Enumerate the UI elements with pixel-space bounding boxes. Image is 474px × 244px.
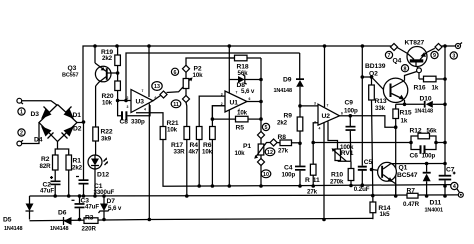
svg-text:U1: U1 — [230, 100, 239, 107]
wire U2 pin3 tap — [300, 105, 318, 107]
svg-text:BD139: BD139 — [365, 63, 386, 70]
svg-text:13: 13 — [154, 84, 160, 90]
wire U1 V- to line A — [228, 110, 230, 186]
svg-text:47uF: 47uF — [85, 204, 99, 211]
resistor R15 — [393, 104, 412, 124]
svg-text:56k: 56k — [427, 128, 438, 135]
transistor Q2 — [365, 63, 408, 103]
diode D5 — [3, 196, 34, 232]
wire P2 top to R18 line — [186, 58, 235, 66]
junction C9 top — [349, 114, 353, 118]
svg-text:3: 3 — [314, 102, 316, 106]
wire Q1 emitter — [392, 181, 396, 196]
junction base — [116, 71, 120, 75]
junction bridge plus — [82, 120, 86, 124]
svg-text:Q3: Q3 — [68, 65, 77, 72]
junction rail U2 supply — [323, 44, 327, 48]
junction collector output column — [443, 162, 447, 166]
junction rail Q3 emitter — [93, 44, 97, 48]
node 8 — [401, 65, 408, 73]
resistor R5 — [212, 110, 261, 132]
resistor R17 — [171, 127, 190, 156]
wire U1 pin2 loop — [212, 106, 225, 119]
svg-text:3k9: 3k9 — [101, 136, 112, 143]
node 9 — [431, 51, 438, 59]
wire R15 to U2 output node — [395, 119, 397, 128]
junction R12 left — [409, 141, 413, 145]
junction output column mid — [443, 141, 447, 145]
svg-text:5: 5 — [265, 125, 268, 131]
svg-text:9: 9 — [433, 53, 436, 59]
svg-text:R12: R12 — [410, 128, 422, 135]
wire Q2 collector to pad8 — [405, 72, 417, 81]
node 12 — [265, 148, 275, 156]
pad terminal small circle — [417, 68, 422, 73]
svg-text:C8: C8 — [120, 119, 129, 126]
wire U1 output — [247, 101, 261, 103]
resistor R20 — [102, 81, 121, 107]
potentiometer P2 — [183, 66, 203, 89]
wire R11 to line A — [312, 175, 314, 186]
wire base feed — [361, 46, 363, 166]
wire sense line A — [163, 127, 451, 187]
svg-text:3: 3 — [127, 105, 129, 109]
svg-text:10k: 10k — [202, 149, 213, 156]
svg-text:10k: 10k — [167, 127, 178, 134]
junction C3 bottom — [78, 218, 82, 222]
wire U2 output — [340, 115, 351, 117]
P1 wiper arrow — [254, 143, 271, 159]
node 10 — [261, 170, 271, 178]
junction rail U1 supply — [228, 44, 232, 48]
resistor R10 — [330, 169, 354, 186]
wire R4 top to U1 pin3 — [199, 96, 225, 126]
junction C5 line A — [361, 183, 365, 187]
svg-text:2k2: 2k2 — [102, 55, 113, 62]
arrowhead P2 wiper — [189, 77, 193, 81]
junction U1 V- line A — [228, 184, 232, 188]
resistor R11 — [305, 164, 320, 195]
svg-text:Q1: Q1 — [399, 165, 408, 172]
wire ground rail B — [30, 195, 459, 196]
terminal input 2 — [17, 140, 23, 146]
wire R6 top to U1 pin2 node — [212, 106, 225, 127]
diode D10 — [415, 95, 446, 114]
resistor R12 — [410, 128, 438, 143]
resistor R13 — [369, 77, 387, 112]
svg-text:3: 3 — [452, 54, 455, 60]
svg-text:BC547: BC547 — [397, 172, 418, 179]
svg-text:7: 7 — [327, 104, 329, 108]
svg-text:C6: C6 — [410, 152, 419, 159]
svg-text:47uF: 47uF — [40, 188, 54, 195]
wire R15 node down to ground — [395, 127, 397, 196]
svg-text:0.47R: 0.47R — [403, 201, 420, 208]
resistor R6 — [202, 127, 215, 156]
svg-text:R8: R8 — [278, 134, 287, 141]
svg-text:82R: 82R — [40, 163, 52, 170]
wire U3 output to pad13 — [153, 96, 161, 101]
wire bridge bottom to R1 R2 — [55, 142, 57, 156]
pad Q4 emitter — [435, 43, 442, 50]
resistor R16 — [414, 76, 446, 91]
svg-text:0.2uF: 0.2uF — [354, 186, 370, 193]
node 7 — [385, 51, 392, 59]
junction R4 line A — [197, 184, 201, 188]
junction rail R19 — [115, 44, 119, 48]
wire D12 to ground — [94, 169, 96, 196]
svg-text:D7: D7 — [107, 198, 116, 205]
transistor Q1 body — [378, 162, 418, 182]
wire U3 pin2 lower to R21 — [136, 113, 163, 127]
zener D8 — [229, 75, 261, 95]
svg-text:R2: R2 — [41, 156, 50, 163]
junction C1 ground — [82, 194, 86, 198]
wire R9 to R8 node — [299, 131, 301, 143]
pad 13 output — [160, 91, 167, 98]
diode D11 — [423, 164, 443, 214]
svg-text:100p: 100p — [344, 108, 358, 115]
capacitor C1 3300uF — [76, 122, 115, 196]
junction D8 R18 — [259, 78, 263, 82]
diode D6 — [50, 209, 72, 232]
wire U3 V- down to line C — [148, 104, 150, 220]
svg-text:6: 6 — [341, 112, 343, 116]
resistor R7 — [403, 187, 420, 208]
svg-text:D4: D4 — [34, 137, 43, 144]
wire R22 to D12 — [95, 141, 97, 155]
wire R10 to line A — [350, 181, 352, 186]
junction rail Q2 base feed — [361, 44, 365, 48]
junction rail U3 supply — [147, 44, 151, 48]
wire U2 V+ column — [324, 46, 326, 107]
resistor R14 — [370, 202, 391, 218]
resistor R9 — [277, 113, 303, 132]
svg-text:Q2: Q2 — [369, 71, 378, 78]
capacitor C4 — [282, 143, 306, 186]
wire ref line from y53 — [126, 53, 300, 101]
junction R8 R9 C4 — [298, 142, 302, 146]
svg-text:1N4148: 1N4148 — [50, 226, 68, 232]
svg-text:R16: R16 — [414, 85, 426, 92]
svg-text:2k2: 2k2 — [277, 120, 288, 127]
junction C7 line A — [443, 184, 447, 188]
wire R6 bottom to line A — [211, 140, 213, 187]
junction R6 line A — [211, 184, 215, 188]
junction D12 ground — [93, 194, 97, 198]
svg-text:8: 8 — [404, 66, 407, 72]
wire Q3 collector to R22 — [95, 86, 97, 127]
capacitor C7 — [439, 167, 456, 197]
svg-text:D5: D5 — [3, 217, 12, 224]
junction R17 ground — [185, 194, 189, 198]
junction R6 R5 node — [211, 117, 215, 121]
wire U3 V+ — [148, 46, 150, 97]
junction ref input — [124, 99, 128, 103]
diode D1 — [64, 107, 75, 120]
junction D10 output column — [443, 103, 447, 107]
wire negative line C — [30, 218, 373, 220]
svg-text:R3: R3 — [85, 215, 94, 222]
wire Q1 collector — [391, 163, 445, 165]
junction U2 V- line C — [322, 218, 326, 222]
wire R1 to ground — [68, 170, 70, 196]
svg-text:1N4148: 1N4148 — [274, 88, 292, 94]
junction D7 bottom — [102, 218, 106, 222]
svg-text:R: R — [305, 177, 310, 184]
svg-text:6: 6 — [174, 70, 177, 76]
svg-text:R5: R5 — [236, 125, 245, 132]
svg-text:D10: D10 — [420, 95, 432, 102]
wire pad13 to P2 wiper arrow — [167, 78, 192, 92]
wire C5 column lower — [361, 170, 363, 185]
svg-text:1k: 1k — [432, 85, 439, 92]
junction R1 ground — [67, 194, 71, 198]
junction feedback mid-line — [311, 141, 315, 145]
junction D11 ground — [425, 194, 429, 198]
wire U3 input node — [118, 100, 131, 102]
node 13 — [152, 82, 162, 91]
svg-text:6: 6 — [249, 97, 251, 101]
resistor R21 — [160, 120, 179, 140]
junction pad10 line A — [259, 184, 263, 188]
diode D9 — [274, 53, 305, 117]
wire mid feedback line — [313, 142, 411, 144]
svg-text:5,6 v: 5,6 v — [241, 88, 255, 95]
wire U2 pin2 to R11 — [313, 123, 318, 164]
svg-text:1k: 1k — [401, 118, 408, 125]
wire terminal1 to bridge top — [22, 101, 58, 106]
pad 10 — [257, 158, 264, 165]
svg-text:R9: R9 — [284, 113, 293, 120]
svg-text:1: 1 — [20, 110, 23, 116]
junction R15 U2 out — [394, 125, 398, 129]
wire bridge right to +rail — [77, 122, 84, 124]
svg-text:100p: 100p — [422, 152, 436, 159]
diode D2 — [62, 126, 75, 139]
svg-text:1N4001: 1N4001 — [425, 208, 443, 214]
wire R12 right to output column — [436, 142, 445, 144]
svg-text:27k: 27k — [278, 148, 289, 155]
wire R17 to ground — [186, 140, 188, 197]
wire terminal2 to bridge left — [22, 123, 39, 144]
wire P1 bottom — [260, 155, 262, 159]
resistor R19 — [101, 46, 120, 66]
junction C4 line A — [298, 184, 302, 188]
wire R14 to line C — [372, 213, 374, 220]
transistor Q3 — [62, 63, 111, 86]
capacitor C5 — [354, 159, 373, 193]
svg-text:R10: R10 — [331, 172, 343, 179]
node 2 — [18, 129, 25, 137]
wire U2 output elbow to R15 node — [350, 116, 395, 127]
junction R5 output node — [259, 117, 263, 121]
junction R10 line A — [349, 184, 353, 188]
svg-text:4: 4 — [144, 108, 146, 112]
zener D7 — [99, 196, 122, 220]
svg-text:C7: C7 — [446, 167, 455, 174]
resistor R18 — [229, 55, 261, 77]
junction U2 pin3 tap — [298, 104, 302, 108]
wire U2 V- to line C — [323, 122, 325, 219]
svg-text:330p: 330p — [131, 119, 145, 126]
wire pad10 to line A — [260, 165, 262, 186]
transistor Q4 KT827 — [393, 39, 435, 66]
wire P2 top — [185, 72, 187, 79]
svg-text:4k7: 4k7 — [189, 149, 200, 156]
junction R16 output column — [443, 77, 447, 81]
svg-text:R1: R1 — [73, 158, 82, 165]
junction U3 input R20 — [116, 99, 120, 103]
LED D12 — [88, 155, 109, 179]
svg-text:U2: U2 — [322, 113, 331, 120]
wire P2 bottom to R17 — [185, 102, 188, 126]
wire Q1 base from divider — [372, 169, 378, 172]
svg-text:C4: C4 — [284, 165, 293, 172]
capacitor C3 — [72, 196, 100, 220]
capacitor C6 — [410, 143, 437, 160]
svg-text:11: 11 — [313, 177, 320, 184]
svg-text:U3: U3 — [136, 99, 145, 106]
wire node4 to terminal — [457, 189, 460, 193]
svg-text:2: 2 — [20, 131, 23, 137]
svg-text:RV1: RV1 — [341, 150, 354, 157]
node 1 — [18, 108, 25, 116]
svg-text:2k2: 2k2 — [72, 165, 83, 172]
svg-text:270k: 270k — [330, 179, 344, 186]
capacitor C9 — [344, 100, 358, 169]
svg-text:1N4148: 1N4148 — [4, 226, 22, 232]
bridge frame — [39, 105, 77, 142]
terminal input 1 — [17, 98, 23, 104]
wire RV1 to U2 offset — [328, 122, 338, 150]
wire U1 feedback column — [260, 80, 262, 136]
junction emitter node — [403, 103, 407, 107]
junction R13 top — [370, 75, 374, 79]
svg-text:33k: 33k — [375, 105, 386, 112]
svg-text:220R: 220R — [82, 226, 97, 233]
trimmer RV1 — [332, 144, 354, 161]
svg-text:P1: P1 — [243, 143, 251, 150]
resistor R2 — [40, 155, 59, 170]
junction base branch — [361, 75, 365, 79]
junction U1 output — [259, 100, 263, 104]
wire P2 bottom — [185, 89, 187, 96]
pad 5 on P1 top column — [257, 131, 264, 138]
svg-text:R7: R7 — [407, 187, 416, 194]
wire Q3 emitter — [94, 46, 96, 63]
junction C2 ground — [53, 194, 57, 198]
svg-text:10k: 10k — [102, 100, 113, 107]
resistor R3 — [82, 215, 99, 233]
resistor R1 — [66, 155, 83, 172]
svg-text:27k: 27k — [307, 188, 318, 195]
wire output column — [444, 46, 446, 175]
junction U3 V- line C — [148, 218, 152, 222]
wire RV1 bottom elbow — [338, 160, 351, 163]
capacitor C2 — [40, 170, 61, 196]
svg-text:100p: 100p — [282, 172, 296, 179]
svg-text:D1: D1 — [73, 112, 82, 119]
op-amp U3 — [127, 89, 157, 113]
wire pad to Q4 base and R16 — [418, 73, 420, 79]
capacitor C8 — [118, 101, 150, 126]
wire Q2 base branch — [362, 76, 371, 78]
svg-text:D9: D9 — [283, 77, 292, 84]
svg-text:10k: 10k — [237, 110, 248, 117]
svg-text:56k: 56k — [238, 70, 249, 77]
svg-text:10: 10 — [263, 172, 269, 178]
terminal output plus — [456, 43, 463, 49]
svg-text:R15: R15 — [400, 110, 412, 117]
wire Q2 emitter node — [404, 100, 406, 104]
svg-text:1k5: 1k5 — [380, 211, 391, 218]
svg-text:7: 7 — [236, 91, 238, 95]
pad P2 bottom 11 — [182, 95, 189, 102]
pad P2 top — [182, 65, 189, 72]
svg-text:12: 12 — [267, 150, 273, 156]
wire R4 bottom to line A — [198, 140, 200, 187]
wire Q3 base — [107, 72, 117, 74]
terminal output minus — [458, 192, 463, 197]
svg-text:D6: D6 — [58, 209, 67, 216]
svg-text:1N4148: 1N4148 — [415, 109, 433, 115]
junction C7 ground — [443, 194, 447, 198]
resistor R4 — [189, 127, 203, 156]
wire emitter D10 R15 node — [396, 103, 425, 105]
svg-text:10k: 10k — [235, 150, 246, 157]
wire U1 V+ column — [228, 46, 230, 95]
pad Q4 collector — [390, 43, 397, 50]
svg-text:D12: D12 — [97, 172, 109, 179]
wire R18 right down — [260, 58, 262, 80]
diode D4 — [41, 126, 54, 139]
node 11 — [171, 100, 181, 108]
wire Q4 base stub — [417, 66, 419, 68]
junction R12 right — [434, 141, 438, 145]
svg-text:D3: D3 — [31, 111, 40, 118]
wire top V+ rail — [83, 46, 391, 122]
svg-text:KT827: KT827 — [405, 39, 425, 46]
svg-text:33R: 33R — [174, 149, 186, 156]
pad 12 wiper — [270, 139, 277, 146]
junction D11 top — [425, 162, 429, 166]
node 5 — [262, 123, 269, 131]
junction R13 R14 ground — [371, 194, 375, 198]
svg-text:C5: C5 — [364, 159, 373, 166]
junction D7 top — [102, 194, 106, 198]
wire R13 to R14 — [372, 100, 373, 202]
svg-text:11: 11 — [173, 102, 179, 108]
junction at ground — [394, 194, 398, 198]
junction output top — [443, 44, 447, 48]
wire output rail segment — [442, 45, 456, 47]
svg-text:BC557: BC557 — [62, 73, 78, 79]
svg-text:R13: R13 — [375, 98, 387, 105]
potentiometer P1 — [235, 138, 264, 157]
diode D3 — [41, 107, 52, 120]
wire R20 to U3 input node — [117, 91, 119, 101]
svg-text:10k: 10k — [193, 72, 204, 79]
wire R19 to R20 with base tap — [117, 66, 119, 82]
junction C3 top — [78, 194, 82, 198]
wire to Q2 base — [372, 77, 384, 90]
resistor R8 — [277, 134, 300, 155]
svg-text:4: 4 — [453, 184, 456, 190]
junction R11 line A — [311, 184, 315, 188]
op-amp U1 — [221, 91, 251, 113]
svg-text:D2: D2 — [73, 126, 82, 133]
